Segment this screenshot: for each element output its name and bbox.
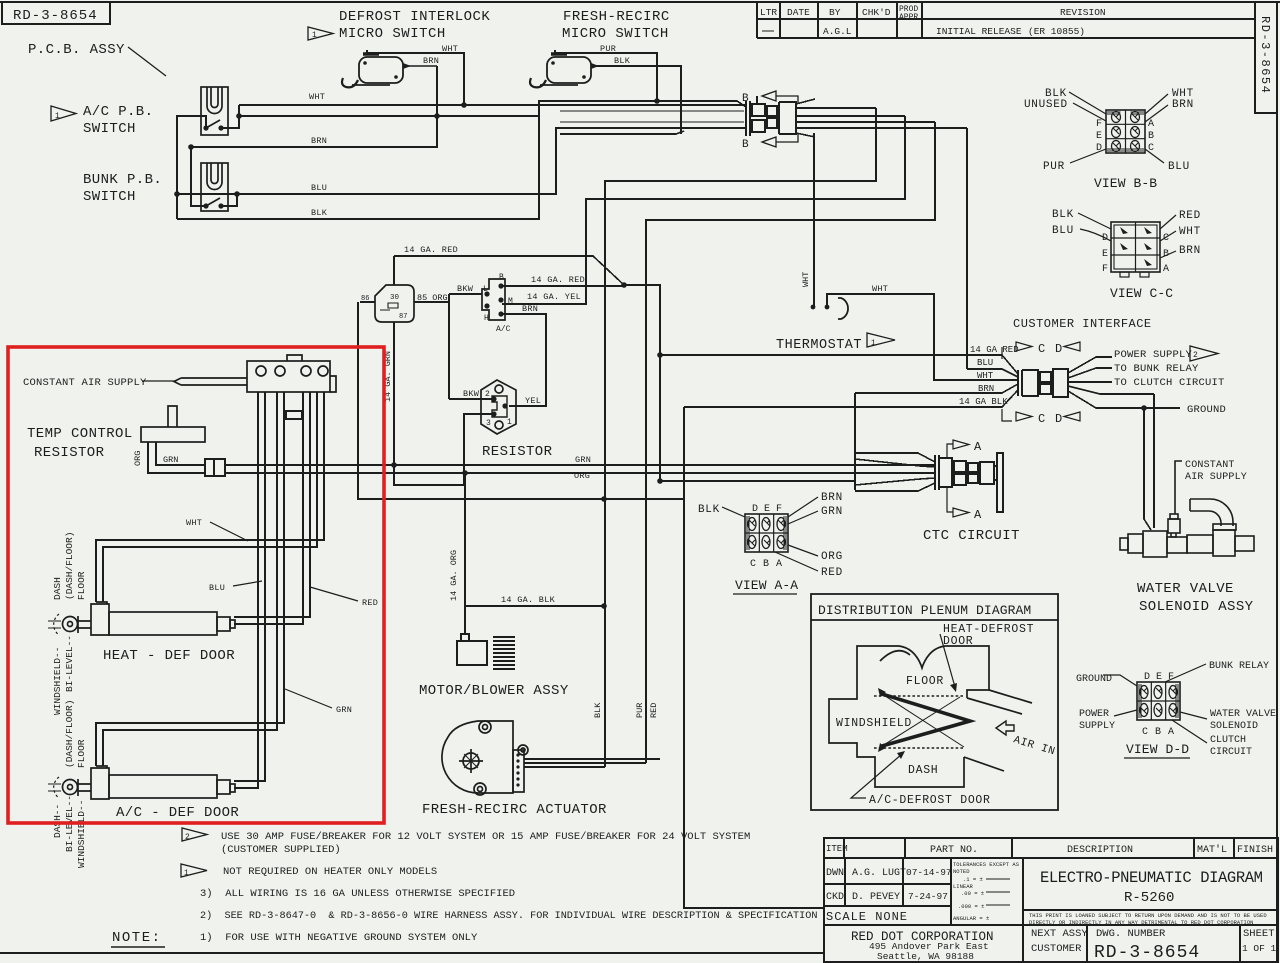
- svg-text:(ER 10855): (ER 10855): [1028, 26, 1085, 37]
- svg-text:AIR SUPPLY: AIR SUPPLY: [1185, 472, 1247, 483]
- svg-text:E: E: [764, 504, 770, 515]
- svg-text:PUR: PUR: [635, 703, 645, 718]
- svg-text:VIEW D-D: VIEW D-D: [1126, 742, 1189, 757]
- svg-text:FRESH-RECIRC ACTUATOR: FRESH-RECIRC ACTUATOR: [422, 802, 607, 818]
- svg-text:TO BUNK RELAY: TO BUNK RELAY: [1114, 363, 1199, 375]
- svg-text:WATER VALVE: WATER VALVE: [1210, 709, 1276, 720]
- svg-text:DWN: DWN: [826, 868, 844, 879]
- svg-text:BUNK P.B.: BUNK P.B.: [83, 172, 162, 188]
- svg-text:BRN: BRN: [978, 384, 994, 394]
- svg-text:FLOOR: FLOOR: [76, 739, 87, 768]
- svg-text:GRN: GRN: [336, 705, 352, 715]
- svg-text:A: A: [974, 508, 982, 522]
- svg-text:MICRO SWITCH: MICRO SWITCH: [339, 26, 446, 42]
- svg-text:BI-LEVEL--: BI-LEVEL--: [64, 635, 75, 692]
- svg-text:FRESH-RECIRC: FRESH-RECIRC: [563, 9, 670, 25]
- svg-text:L: L: [483, 285, 488, 294]
- svg-text:1 OF 1: 1 OF 1: [1242, 943, 1277, 954]
- svg-text:MAT'L: MAT'L: [1197, 844, 1227, 856]
- svg-text:A: A: [1163, 264, 1169, 275]
- svg-text:RED: RED: [821, 567, 843, 579]
- svg-text:BRN: BRN: [821, 492, 843, 504]
- svg-text:(DASH/FLOOR): (DASH/FLOOR): [64, 700, 75, 768]
- svg-text:REVISION: REVISION: [1060, 7, 1106, 18]
- svg-text:WATER VALVE: WATER VALVE: [1137, 581, 1234, 597]
- svg-text:07-14-97: 07-14-97: [906, 867, 952, 878]
- svg-text:A: A: [776, 559, 782, 570]
- svg-text:RED: RED: [649, 703, 659, 718]
- svg-text:1: 1: [871, 339, 876, 348]
- svg-text:F: F: [1102, 264, 1108, 275]
- svg-text:(CUSTOMER SUPPLIED): (CUSTOMER SUPPLIED): [221, 844, 341, 856]
- svg-text:PUR: PUR: [600, 44, 616, 54]
- svg-text:DWG. NUMBER: DWG. NUMBER: [1096, 928, 1166, 940]
- svg-text:B: B: [1148, 131, 1154, 142]
- svg-text:2: 2: [485, 390, 490, 399]
- svg-text:Seattle, WA 98188: Seattle, WA 98188: [877, 951, 974, 962]
- svg-text:14 GA RED: 14 GA RED: [970, 345, 1019, 355]
- svg-text:B: B: [1155, 727, 1161, 738]
- svg-text:B: B: [763, 559, 769, 570]
- svg-text:WHT: WHT: [1179, 226, 1201, 238]
- svg-text:NOT REQUIRED ON HEATER ONLY MO: NOT REQUIRED ON HEATER ONLY MODELS: [223, 866, 437, 878]
- svg-text:3: 3: [486, 419, 491, 428]
- svg-text:DIRECTLY OR INDIRECTLY IN ANY: DIRECTLY OR INDIRECTLY IN ANY WAY DETRIM…: [1029, 919, 1253, 926]
- svg-text:WINDSHIELD--: WINDSHIELD--: [52, 647, 63, 715]
- svg-text:WHT: WHT: [309, 92, 325, 102]
- svg-text:D. PEVEY: D. PEVEY: [852, 892, 900, 903]
- svg-text:MOTOR/BLOWER ASSY: MOTOR/BLOWER ASSY: [419, 683, 569, 699]
- svg-text:GRN: GRN: [163, 455, 178, 465]
- svg-text:GRN: GRN: [821, 506, 843, 518]
- svg-text:TEMP CONTROL: TEMP CONTROL: [27, 426, 133, 442]
- svg-text:14 GA. YEL: 14 GA. YEL: [527, 292, 581, 302]
- svg-text:F: F: [776, 504, 782, 515]
- svg-text:.000 = ±: .000 = ±: [958, 903, 984, 910]
- svg-text:PART NO.: PART NO.: [930, 845, 978, 856]
- svg-text:WHT: WHT: [872, 284, 888, 294]
- svg-text:D: D: [1055, 412, 1062, 426]
- svg-text:E: E: [1096, 131, 1102, 142]
- svg-text:WHT: WHT: [186, 518, 202, 528]
- svg-text:CUSTOMER INTERFACE: CUSTOMER INTERFACE: [1013, 317, 1152, 331]
- svg-text:BLK: BLK: [1052, 209, 1074, 221]
- svg-text:A/C: A/C: [496, 325, 511, 334]
- svg-text:VIEW C-C: VIEW C-C: [1110, 286, 1173, 301]
- svg-text:85 ORG: 85 ORG: [417, 293, 448, 303]
- svg-text:E: E: [1102, 249, 1108, 260]
- svg-text:D: D: [752, 504, 758, 515]
- svg-text:WINDSHIELD: WINDSHIELD: [836, 717, 912, 730]
- svg-text:B: B: [742, 93, 749, 105]
- svg-text:BLK: BLK: [698, 504, 720, 516]
- svg-text:PUR: PUR: [1043, 161, 1065, 173]
- svg-text:C: C: [1038, 342, 1045, 356]
- svg-text:14 GA. RED: 14 GA. RED: [531, 275, 585, 285]
- svg-text:RED: RED: [362, 598, 378, 608]
- svg-text:MICRO SWITCH: MICRO SWITCH: [562, 26, 669, 42]
- svg-text:POWER SUPPLY: POWER SUPPLY: [1114, 349, 1193, 361]
- svg-text:RESISTOR: RESISTOR: [482, 444, 553, 460]
- svg-text:CIRCUIT: CIRCUIT: [1210, 747, 1252, 758]
- svg-text:2) SEE RD-3-8647-0 & RD-3-86: 2) SEE RD-3-8647-0 & RD-3-8656-0 WIRE HA…: [200, 910, 817, 922]
- svg-text:BLU: BLU: [1168, 161, 1190, 173]
- svg-text:ORG: ORG: [574, 471, 590, 481]
- svg-text:ITEM: ITEM: [826, 844, 848, 854]
- svg-text:A.G.L: A.G.L: [823, 26, 852, 37]
- svg-text:BLU: BLU: [209, 583, 225, 593]
- svg-text:ANGULAR = ±: ANGULAR = ±: [953, 915, 989, 922]
- svg-text:2: 2: [185, 833, 190, 842]
- svg-text:WHT: WHT: [801, 272, 811, 287]
- svg-text:SHEET: SHEET: [1243, 928, 1275, 940]
- svg-text:RED: RED: [1179, 210, 1201, 222]
- svg-text:1) FOR USE WITH NEGATIVE GROU: 1) FOR USE WITH NEGATIVE GROUND SYSTEM O…: [200, 932, 478, 944]
- svg-text:RD-3-8654: RD-3-8654: [13, 8, 98, 24]
- svg-text:LINEAR: LINEAR: [953, 883, 974, 890]
- svg-text:ELECTRO-PNEUMATIC DIAGRAM: ELECTRO-PNEUMATIC DIAGRAM: [1040, 869, 1263, 887]
- svg-text:R-5260: R-5260: [1124, 890, 1174, 906]
- svg-text:DESCRIPTION: DESCRIPTION: [1067, 845, 1133, 856]
- svg-text:A/C-DEFROST DOOR: A/C-DEFROST DOOR: [869, 794, 991, 807]
- svg-text:A/C P.B.: A/C P.B.: [83, 104, 153, 120]
- svg-text:RESISTOR: RESISTOR: [34, 445, 105, 461]
- svg-text:7-24-97: 7-24-97: [908, 891, 948, 902]
- svg-text:YEL: YEL: [525, 396, 541, 406]
- svg-text:E: E: [1156, 672, 1162, 683]
- svg-text:DASH: DASH: [908, 764, 938, 777]
- svg-text:POWER: POWER: [1079, 709, 1109, 720]
- svg-text:(DASH/FLOOR): (DASH/FLOOR): [64, 532, 75, 600]
- svg-text:WINDSHIELD--: WINDSHIELD--: [76, 800, 87, 868]
- svg-text:1: 1: [55, 112, 60, 121]
- svg-text:THERMOSTAT: THERMOSTAT: [776, 338, 862, 353]
- svg-text:.00 = ±: .00 = ±: [961, 890, 984, 897]
- svg-text:VIEW A-A: VIEW A-A: [735, 578, 798, 593]
- svg-text:TOLERANCES EXCEPT AS: TOLERANCES EXCEPT AS: [953, 861, 1020, 868]
- svg-text:BRN: BRN: [522, 304, 538, 314]
- svg-text:SUPPLY: SUPPLY: [1079, 721, 1115, 732]
- svg-text:NOTE:: NOTE:: [112, 930, 162, 946]
- svg-text:DASH: DASH: [52, 577, 63, 600]
- svg-text:14 GA. BLK: 14 GA. BLK: [501, 595, 556, 605]
- svg-text:RD-3-8654: RD-3-8654: [1258, 16, 1272, 94]
- svg-text:BLK: BLK: [311, 208, 328, 218]
- svg-text:RD-3-8654: RD-3-8654: [1094, 943, 1200, 963]
- svg-text:GROUND: GROUND: [1076, 674, 1112, 685]
- svg-text:BRN: BRN: [1172, 99, 1194, 111]
- svg-text:30: 30: [390, 294, 400, 302]
- svg-text:D: D: [1144, 672, 1150, 683]
- svg-text:CUSTOMER: CUSTOMER: [1031, 943, 1082, 955]
- svg-text:WHT: WHT: [977, 371, 994, 381]
- svg-text:14 GA. ORG: 14 GA. ORG: [449, 550, 459, 601]
- svg-text:FINISH: FINISH: [1237, 845, 1273, 856]
- svg-text:SWITCH: SWITCH: [83, 121, 136, 137]
- svg-text:BLU: BLU: [311, 183, 327, 193]
- svg-text:USE 30 AMP FUSE/BREAKER FOR 12: USE 30 AMP FUSE/BREAKER FOR 12 VOLT SYST…: [221, 831, 750, 843]
- svg-text:A: A: [1168, 727, 1174, 738]
- svg-text:.1 = ±: .1 = ±: [963, 876, 983, 883]
- svg-text:M: M: [508, 297, 513, 306]
- svg-text:SOLENOID: SOLENOID: [1210, 721, 1258, 732]
- svg-text:FLOOR: FLOOR: [76, 571, 87, 600]
- svg-text:THIS PRINT IS LOANED SUBJECT T: THIS PRINT IS LOANED SUBJECT TO RETURN U…: [1029, 912, 1267, 919]
- svg-text:GRN: GRN: [575, 455, 591, 465]
- svg-text:DEFROST INTERLOCK: DEFROST INTERLOCK: [339, 9, 490, 25]
- svg-text:1: 1: [507, 418, 512, 427]
- svg-text:3) ALL WIRING IS 16 GA UNLESS: 3) ALL WIRING IS 16 GA UNLESS OTHERWISE …: [200, 888, 515, 900]
- svg-text:NEXT ASSY: NEXT ASSY: [1031, 928, 1088, 940]
- svg-text:B: B: [742, 139, 749, 151]
- svg-text:CTC CIRCUIT: CTC CIRCUIT: [923, 528, 1020, 544]
- svg-text:BRN: BRN: [1179, 245, 1201, 257]
- svg-text:B: B: [499, 273, 504, 282]
- svg-text:APPR: APPR: [899, 13, 918, 22]
- svg-text:BLU: BLU: [977, 358, 993, 368]
- svg-text:87: 87: [399, 313, 407, 321]
- svg-text:CHK'D: CHK'D: [862, 7, 891, 18]
- svg-text:C: C: [1142, 727, 1148, 738]
- svg-text:BUNK RELAY: BUNK RELAY: [1209, 661, 1269, 672]
- svg-text:P.C.B. ASSY: P.C.B. ASSY: [28, 42, 125, 58]
- svg-text:14 GA BLK: 14 GA BLK: [959, 397, 1008, 407]
- svg-text:1: 1: [184, 869, 189, 878]
- svg-text:A/C - DEF DOOR: A/C - DEF DOOR: [116, 805, 239, 821]
- svg-text:BLK: BLK: [593, 702, 603, 718]
- svg-text:VIEW B-B: VIEW B-B: [1094, 176, 1157, 191]
- svg-text:CONSTANT AIR SUPPLY: CONSTANT AIR SUPPLY: [23, 377, 147, 389]
- svg-text:H: H: [484, 314, 489, 323]
- svg-text:HEAT - DEF DOOR: HEAT - DEF DOOR: [103, 648, 235, 664]
- svg-text:C: C: [1038, 412, 1045, 426]
- svg-text:BRN: BRN: [311, 136, 327, 146]
- svg-text:SCALE NONE: SCALE NONE: [826, 910, 908, 924]
- svg-text:ORG: ORG: [133, 451, 143, 466]
- svg-text:D: D: [1055, 342, 1062, 356]
- svg-text:SWITCH: SWITCH: [83, 189, 136, 205]
- svg-text:CONSTANT: CONSTANT: [1185, 460, 1235, 471]
- svg-text:BY: BY: [829, 7, 841, 18]
- svg-text:A.G. LUGT: A.G. LUGT: [852, 868, 906, 879]
- svg-text:14 GA. RED: 14 GA. RED: [404, 245, 458, 255]
- svg-text:DATE: DATE: [787, 7, 810, 18]
- svg-text:BKW: BKW: [463, 389, 480, 399]
- svg-text:F: F: [1096, 119, 1102, 130]
- svg-text:NOTED: NOTED: [953, 868, 970, 875]
- svg-text:GROUND: GROUND: [1187, 404, 1226, 416]
- svg-text:A: A: [974, 440, 982, 454]
- svg-text:2: 2: [1193, 351, 1198, 360]
- svg-text:DASH--: DASH--: [52, 804, 63, 838]
- svg-text:1: 1: [312, 31, 317, 40]
- svg-text:CLUTCH: CLUTCH: [1210, 735, 1246, 746]
- svg-text:ORG: ORG: [821, 551, 843, 563]
- svg-text:CKD: CKD: [826, 892, 844, 903]
- svg-text:C: C: [750, 559, 756, 570]
- svg-text:TO CLUTCH CIRCUIT: TO CLUTCH CIRCUIT: [1114, 377, 1225, 389]
- svg-text:LTR: LTR: [760, 7, 777, 18]
- svg-text:DOOR: DOOR: [943, 635, 973, 648]
- svg-text:BLU: BLU: [1052, 225, 1074, 237]
- svg-text:BKW: BKW: [457, 284, 474, 294]
- svg-text:A: A: [1148, 119, 1154, 130]
- svg-text:BRN: BRN: [423, 56, 439, 66]
- svg-text:FLOOR: FLOOR: [906, 675, 944, 688]
- svg-text:BLK: BLK: [614, 56, 631, 66]
- svg-text:DISTRIBUTION PLENUM DIAGRAM: DISTRIBUTION PLENUM DIAGRAM: [818, 603, 1031, 618]
- svg-text:WHT: WHT: [442, 44, 458, 54]
- svg-text:SOLENOID ASSY: SOLENOID ASSY: [1139, 599, 1254, 615]
- svg-text:F: F: [1168, 672, 1174, 683]
- svg-text:UNUSED: UNUSED: [1024, 99, 1068, 111]
- svg-text:INITIAL RELEASE: INITIAL RELEASE: [936, 26, 1022, 37]
